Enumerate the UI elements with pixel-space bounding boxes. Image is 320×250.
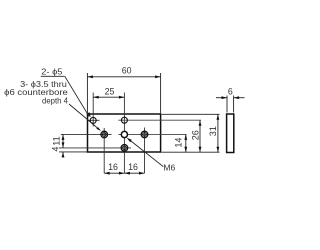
centerline row 2 left segment	[61, 133, 112, 135]
dimension 16 left	[104, 162, 124, 175]
svg-text:25: 25	[105, 87, 115, 97]
leader to hole C	[69, 104, 101, 131]
centerline row 1 left segment	[88, 119, 100, 121]
dimension 14	[174, 134, 188, 152]
centerline column A	[92, 93, 94, 127]
centerline row 2 right segment / extension for 14	[118, 133, 186, 135]
svg-text:2- ϕ5: 2- ϕ5	[41, 66, 62, 76]
extension line 60 right	[160, 73, 162, 113]
label 2-phi5	[41, 66, 62, 76]
note line 2: phi6 counterbore	[4, 87, 68, 97]
svg-text:16: 16	[128, 162, 138, 172]
dimension 60	[87, 66, 160, 79]
svg-text:depth 4: depth 4	[42, 96, 68, 106]
svg-text:4: 4	[50, 147, 60, 152]
dimension 4	[50, 147, 64, 158]
centerline column D	[144, 128, 146, 174]
hole B2 (M6 tap)	[121, 131, 127, 137]
centerline column B	[123, 93, 125, 174]
centerline row 3	[59, 147, 131, 149]
svg-text:16: 16	[108, 162, 118, 172]
svg-text:60: 60	[122, 66, 132, 76]
extension side view right	[233, 96, 235, 113]
extension line 60 left	[86, 73, 88, 113]
extension plate bottom left	[59, 151, 87, 153]
hole A (phi5)	[90, 117, 96, 123]
dimension 6	[216, 86, 245, 99]
hole B1 (phi5)	[121, 117, 127, 123]
dimension 11	[52, 134, 65, 148]
centerline column C	[103, 128, 105, 173]
svg-text:31: 31	[208, 126, 218, 136]
svg-text:26: 26	[190, 130, 200, 140]
dimension 16 right	[124, 162, 144, 175]
hole B3 (counterbore)	[121, 145, 128, 152]
dimension 31	[208, 114, 219, 152]
dimension 26	[190, 120, 201, 152]
extension plate bottom right	[162, 151, 220, 153]
leader underline for 2-phi5	[41, 75, 65, 77]
leader to hole A	[65, 76, 91, 117]
svg-text:14: 14	[174, 138, 184, 148]
plate front view outline	[88, 114, 161, 152]
extension side view left	[226, 96, 228, 113]
dimension 25	[93, 87, 124, 99]
leader from M6 to hole B2	[127, 138, 164, 167]
centerline row 1 right segment / extension for 26	[118, 119, 201, 121]
label M6	[163, 163, 175, 173]
extension plate top right	[162, 113, 220, 115]
note line 3: depth 4	[42, 96, 68, 106]
svg-text:6: 6	[228, 86, 233, 96]
side view outline	[227, 114, 234, 153]
hole D (counterbore)	[141, 131, 148, 138]
svg-text:11: 11	[52, 136, 62, 145]
note line 1: 3-phi3.5 thru	[20, 79, 67, 89]
hole C (counterbore)	[101, 131, 108, 138]
svg-text:M6: M6	[163, 163, 175, 173]
